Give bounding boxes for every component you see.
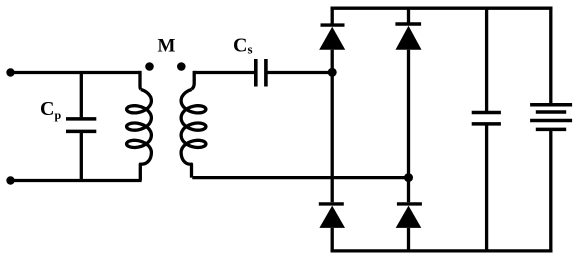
capacitor Cp top lead bbox=[80, 73, 83, 119]
diode D1 triangle bbox=[319, 27, 345, 50]
diode D3 triangle bbox=[319, 206, 345, 228]
svg-text:C: C bbox=[40, 98, 54, 120]
node: primary polarity dot bbox=[145, 62, 154, 71]
inductor L2 secondary winding bbox=[192, 71, 195, 89]
wire: top-left horizontal (input to primary) bbox=[11, 71, 141, 74]
wire: battery top lead bbox=[549, 8, 552, 105]
diode D2 (top-right) cathode bar bbox=[395, 22, 421, 25]
node: secondary polarity dot bbox=[177, 62, 186, 71]
svg-text:M: M bbox=[158, 36, 176, 57]
svg-text:s: s bbox=[248, 42, 253, 57]
node: bridge AC input junction bbox=[328, 68, 337, 77]
wire: bottom-left horizontal (input to primary) bbox=[11, 179, 142, 182]
inductor L1 primary winding bbox=[138, 71, 142, 89]
wire: left bridge leg lower segment bbox=[331, 228, 334, 251]
wire: top rail (DC+) bbox=[331, 7, 553, 10]
wire: right bridge leg upper segment bbox=[407, 8, 410, 24]
wire: battery bottom lead bbox=[549, 129, 552, 251]
wire: bottom rail (DC-) bbox=[331, 249, 553, 252]
wire: secondary top to Cs bbox=[194, 71, 254, 74]
node: top-left input terminal bbox=[6, 68, 14, 76]
svg-text:p: p bbox=[55, 108, 62, 122]
diode D4 (bottom-right) cathode bar bbox=[397, 202, 422, 205]
node: bridge AC input junction 2 bbox=[404, 173, 413, 182]
capacitor Cs plates bbox=[254, 59, 258, 87]
wire: left bridge leg middle segment bbox=[331, 50, 334, 202]
capacitor C1 (filter) plates bbox=[472, 111, 501, 115]
diode D1 (top-left) cathode bar bbox=[321, 23, 345, 26]
diode D4 triangle bbox=[396, 206, 422, 228]
capacitor Cp bottom lead bbox=[80, 131, 83, 180]
wire: right bridge leg middle segment bbox=[407, 50, 410, 203]
svg-text:C: C bbox=[233, 35, 247, 57]
wire: secondary bottom to bridge bbox=[192, 176, 408, 179]
diode D2 triangle bbox=[396, 26, 422, 50]
wire: right bridge leg lower segment bbox=[407, 228, 410, 251]
wire: Cs to bridge AC node bbox=[268, 71, 333, 74]
wire: filter capacitor top lead bbox=[485, 8, 488, 112]
battery BT1 plates bbox=[530, 103, 572, 107]
node: bottom-left input terminal bbox=[6, 176, 14, 184]
diode D3 (bottom-left) cathode bar bbox=[319, 202, 344, 205]
wire: left bridge leg upper segment bbox=[331, 8, 334, 25]
capacitor Cp plates bbox=[66, 117, 96, 121]
wire: filter capacitor bottom lead bbox=[485, 124, 488, 251]
